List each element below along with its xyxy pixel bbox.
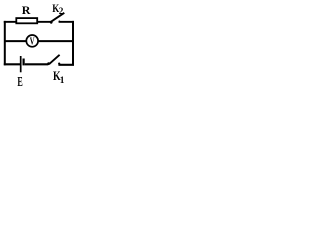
switch K1 right contact nub (58, 63, 60, 65)
battery E short thick plate (23, 59, 25, 66)
wire left vertical (4, 21, 6, 65)
wire voltmeter branch left (5, 40, 26, 42)
switch K2 pivot dot (50, 21, 53, 24)
wire top-left to resistor (4, 21, 16, 23)
switch K1 pivot dot (47, 62, 50, 65)
wire right vertical (72, 21, 74, 65)
svg-text:R: R (22, 3, 31, 17)
wire voltmeter branch right (39, 40, 74, 42)
resistor R (16, 18, 37, 23)
battery E long plate (20, 56, 22, 72)
svg-text:E: E (17, 75, 22, 90)
switch K2 blade (51, 13, 65, 22)
svg-text:V: V (30, 36, 35, 47)
wire bottom-left to battery (4, 63, 20, 65)
wire resistor to K2 pivot (38, 21, 52, 23)
svg-text:2: 2 (59, 6, 64, 17)
wire K1 to bottom-right corner (58, 64, 74, 66)
voltmeter V (26, 35, 38, 47)
svg-text:1: 1 (60, 76, 65, 86)
wire battery to K1 pivot (25, 63, 49, 65)
switch K2 right contact nub (59, 21, 61, 23)
switch K1 blade (49, 55, 59, 64)
wire K2 to top-right corner (59, 21, 74, 23)
